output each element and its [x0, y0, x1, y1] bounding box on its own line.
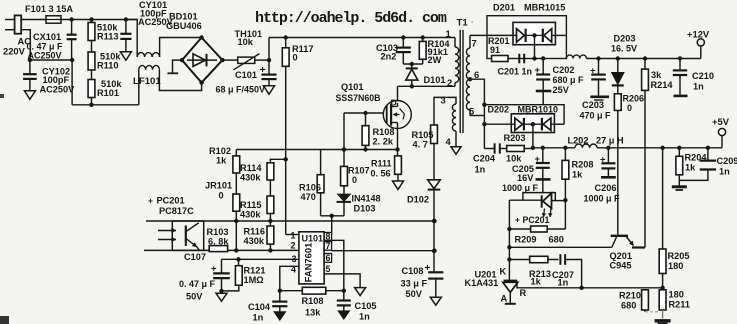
resistor R210 680 — [642, 290, 649, 310]
svg-text:0: 0 — [219, 191, 224, 201]
svg-text:33 μ F: 33 μ F — [401, 279, 428, 289]
ground R111 — [393, 181, 404, 190]
svg-text:2. 2k: 2. 2k — [373, 137, 394, 147]
svg-text:C101: C101 — [235, 70, 257, 80]
optocoupler PC201 LED side — [523, 193, 555, 201]
capacitor CY102 — [29, 60, 31, 74]
node JR101-feedback junction — [234, 248, 238, 252]
node chain bottom junction — [89, 103, 93, 107]
resistor R108 2.2k gate — [365, 113, 367, 126]
diode D103 1N4148 — [338, 194, 350, 201]
capacitor C107 0.47uF 50V — [221, 259, 223, 273]
svg-text:CX101: CX101 — [33, 32, 61, 42]
svg-text:5: 5 — [326, 264, 331, 274]
capacitor C201 1n — [518, 54, 520, 64]
svg-text:430k: 430k — [240, 210, 261, 220]
svg-text:68 μ F/450V: 68 μ F/450V — [216, 85, 266, 95]
svg-text:470: 470 — [301, 192, 316, 202]
node D201 output junction — [532, 56, 536, 60]
terminal +5V — [721, 136, 723, 148]
wire R101 to bottom rail — [91, 98, 93, 105]
svg-text:0. 56: 0. 56 — [371, 169, 391, 179]
transformer T1 primary winding pins 1-2 — [454, 38, 456, 48]
resistor R206 0 — [614, 94, 621, 111]
capacitor C204 1n — [484, 148, 494, 150]
svg-text:R102: R102 — [209, 146, 231, 156]
wire R210 bottom link — [644, 310, 646, 312]
svg-text:R: R — [520, 288, 527, 298]
ground pin 4 — [451, 147, 461, 155]
wire pin5 to ground — [324, 274, 360, 288]
wire R211 to ground — [662, 310, 664, 319]
node startup chain branch — [284, 157, 288, 161]
pin 4 lead — [280, 266, 299, 290]
ground pin5 open triangle — [355, 288, 366, 296]
svg-text:7: 7 — [472, 38, 477, 49]
node C101 junction — [267, 58, 271, 62]
svg-text:R103: R103 — [207, 227, 229, 237]
resistor R110 510k — [88, 52, 95, 70]
svg-text:1k: 1k — [216, 156, 227, 166]
node R113 chain top junction — [89, 17, 93, 21]
node D203 tap — [616, 56, 620, 60]
svg-text:1: 1 — [446, 28, 451, 39]
resistor R108 13k timing — [302, 287, 326, 294]
jumper JR101 0 — [235, 173, 237, 194]
capacitor C209 1n — [707, 148, 709, 160]
svg-text:R114: R114 — [240, 163, 262, 173]
capacitor C203 470uF — [598, 59, 600, 75]
resistor R213 1k — [509, 259, 529, 261]
node R204 tap — [677, 146, 681, 150]
node base wire junction — [507, 245, 511, 249]
svg-text:8: 8 — [326, 231, 331, 241]
node C202 tap — [541, 56, 545, 60]
svg-text:1n: 1n — [359, 312, 370, 322]
svg-text:Q201: Q201 — [610, 251, 632, 261]
capacitor C104 1n — [279, 291, 281, 301]
svg-text:3: 3 — [292, 254, 297, 264]
svg-text:C209: C209 — [717, 156, 737, 166]
svg-text:BD101: BD101 — [169, 12, 198, 22]
wire lower rail down to bottom rail — [71, 60, 73, 105]
resistor R111 0.56 — [397, 150, 399, 156]
svg-text:R208: R208 — [572, 160, 594, 170]
svg-text:+: + — [515, 215, 520, 225]
capacitor C103 2n2 — [401, 35, 405, 39]
capacitor C207 1n — [548, 259, 559, 261]
wire pin7 to D201 — [470, 34, 513, 36]
wire lower AC rail — [30, 59, 72, 61]
svg-text:13k: 13k — [305, 308, 321, 318]
svg-text:680 μ F: 680 μ F — [553, 75, 585, 85]
node R107 column junction — [342, 147, 346, 151]
svg-text:R113: R113 — [97, 32, 118, 42]
node D202 output junction — [531, 146, 535, 150]
wire pin 6 to D202 — [470, 79, 484, 105]
svg-text:50V: 50V — [186, 292, 203, 302]
svg-text:R209: R209 — [515, 235, 537, 245]
resistor R103 6.8k — [209, 246, 227, 252]
svg-text:0: 0 — [627, 103, 632, 113]
svg-text:430k: 430k — [240, 173, 261, 183]
svg-text:0. 47 μ F: 0. 47 μ F — [179, 279, 216, 289]
capacitor CY101 — [125, 20, 127, 34]
inductor LF101 common-mode choke upper winding — [126, 20, 137, 58]
resistor R115 430k — [267, 196, 274, 214]
node C107-R121 ground junction — [219, 289, 223, 293]
thermistor TH101 10k — [222, 59, 237, 61]
svg-text:R111: R111 — [371, 159, 392, 169]
wire K node drop — [508, 247, 510, 280]
node CX101 top junction — [69, 17, 73, 21]
resistor R208 1k — [564, 148, 566, 161]
wire R110-R101 — [91, 70, 93, 80]
transistor Q201 C945 — [611, 235, 628, 237]
node R205 tap — [660, 146, 664, 150]
node R209 left junction — [507, 227, 511, 231]
node D201 common cathode — [532, 33, 536, 37]
node C205 tap — [541, 146, 545, 150]
node rail to VCC node — [432, 219, 436, 223]
svg-text:R116: R116 — [244, 227, 265, 237]
pin 8 box — [324, 233, 332, 241]
svg-text:R214: R214 — [651, 80, 674, 90]
svg-text:180: 180 — [668, 261, 683, 271]
resistor R101 510k — [88, 80, 95, 98]
capacitor C101 68uF/450V — [268, 60, 270, 74]
resistor R107 0 — [343, 150, 345, 167]
svg-text:50V: 50V — [406, 289, 423, 299]
wire C204 branch from anode column — [483, 124, 485, 148]
wire opto collector rail — [146, 220, 435, 222]
terminal +12V — [700, 46, 702, 59]
svg-text:R105: R105 — [412, 130, 434, 140]
svg-text:0: 0 — [352, 175, 357, 185]
svg-text:T1: T1 — [457, 18, 469, 29]
wire up to primary HV rail — [268, 38, 270, 61]
node C206 tap — [606, 146, 610, 150]
svg-text:SSS7N60B: SSS7N60B — [336, 93, 381, 103]
svg-text:L202: L202 — [568, 136, 589, 146]
svg-text:1k: 1k — [685, 163, 696, 173]
wire branch to R114 — [270, 159, 285, 163]
connector AC input plug — [15, 15, 22, 33]
svg-text:0: 0 — [293, 53, 298, 63]
svg-text:+5V: +5V — [712, 116, 730, 127]
capacitor C205 1000uF 16V — [542, 148, 544, 163]
resistor R201 91 — [492, 56, 508, 62]
svg-text:C202: C202 — [553, 65, 575, 75]
svg-text:16. 5V: 16. 5V — [611, 44, 637, 54]
svg-text:R203: R203 — [504, 133, 526, 143]
svg-text:3k: 3k — [651, 70, 662, 80]
node pin6 net corner — [482, 103, 486, 107]
svg-text:1n: 1n — [719, 167, 730, 177]
node pin7-VCC junction — [432, 249, 436, 253]
svg-text:4: 4 — [446, 136, 452, 147]
svg-text:1n: 1n — [693, 82, 704, 92]
svg-text:R107: R107 — [348, 166, 370, 176]
svg-text:http://oahelp. 5d6d. com: http://oahelp. 5d6d. com — [255, 10, 447, 27]
svg-text:R108: R108 — [373, 127, 395, 137]
resistor R117 0 — [284, 35, 288, 39]
wire zener column to Q201 collector — [617, 110, 619, 234]
resistor R114 430k — [267, 163, 274, 180]
scan edge mark — [0, 94, 4, 98]
diode D102 — [428, 180, 441, 189]
svg-text:C203: C203 — [582, 100, 604, 110]
svg-text:R101: R101 — [97, 88, 119, 98]
resistor R116 430k — [267, 226, 274, 244]
svg-text:680: 680 — [549, 235, 564, 245]
svg-text:+: + — [148, 196, 153, 206]
svg-text:C210: C210 — [692, 71, 714, 81]
ground R204 C209 — [672, 185, 687, 188]
svg-text:LF101: LF101 — [133, 76, 161, 87]
wire AC neutral to lower rail — [21, 30, 30, 60]
transformer T1 core — [459, 30, 461, 133]
optocoupler PC201 PC817C transistor side — [172, 221, 203, 250]
svg-text:100pF: 100pF — [43, 75, 70, 85]
svg-text:C201 1n: C201 1n — [498, 67, 533, 77]
svg-text:PC817C: PC817C — [159, 206, 194, 216]
svg-text:680: 680 — [621, 301, 636, 311]
resistor R102 1k — [235, 150, 237, 156]
capacitor C210 1n — [679, 59, 681, 70]
node pin4-C104 junction — [278, 289, 282, 293]
svg-text:A: A — [501, 294, 508, 304]
wire drain to transformer pin2 — [398, 85, 456, 87]
wire snubber bottom — [403, 63, 422, 65]
node R116-feedback junction — [268, 248, 272, 252]
node rail-JR101 junction — [234, 219, 238, 223]
svg-text:2: 2 — [447, 77, 452, 88]
node rail-R115-R116 junction — [268, 219, 272, 223]
diode D101 — [411, 64, 413, 68]
wire primary HV top rail — [269, 37, 455, 39]
svg-text:C105: C105 — [355, 301, 377, 311]
pin 1 lead — [286, 234, 299, 236]
capacitor C206 1000uF — [607, 148, 609, 163]
svg-text:6: 6 — [326, 253, 331, 263]
svg-text:JR101: JR101 — [205, 181, 232, 191]
LED diode PC201 — [541, 195, 543, 207]
wire D103-R106 bottom link — [321, 215, 344, 217]
wire LED node risers — [564, 200, 566, 229]
wire IC feedback rail pin2 — [144, 249, 209, 251]
svg-text:U101: U101 — [302, 234, 324, 244]
wire primary bottom rail to LF101 — [72, 104, 139, 106]
node BD101 bottom vertex — [199, 80, 203, 84]
svg-text:2W: 2W — [428, 55, 442, 65]
node pin8 branch — [330, 214, 334, 218]
node R208 tap — [563, 146, 567, 150]
svg-text:10k: 10k — [506, 154, 522, 164]
svg-text:D101: D101 — [424, 75, 446, 85]
transformer T1 secondary winding pin 6-5 — [466, 79, 470, 110]
capacitor CX101 — [71, 20, 73, 35]
svg-text:R106: R106 — [299, 183, 321, 193]
ground C107 — [221, 291, 223, 293]
svg-text:C107: C107 — [184, 252, 206, 262]
wire pin8 riser — [331, 216, 333, 233]
resistor R121 1M — [236, 257, 240, 261]
svg-text:MBR1015: MBR1015 — [524, 3, 565, 13]
node pin 6 — [468, 77, 472, 81]
wire +5V rail — [533, 147, 575, 149]
node BD101 right vertex — [220, 58, 224, 62]
wire source lead — [397, 128, 399, 149]
svg-text:1n: 1n — [475, 165, 486, 175]
svg-text:1: 1 — [291, 231, 296, 241]
svg-text:180: 180 — [669, 290, 684, 300]
svg-text:91: 91 — [490, 45, 500, 55]
wire LED row — [509, 199, 541, 201]
pin 7 box — [324, 242, 332, 251]
wire primary source rail — [236, 149, 397, 151]
wire U201 ref lead — [517, 281, 663, 288]
svg-text:6: 6 — [474, 69, 479, 80]
svg-text:4: 4 — [291, 265, 296, 275]
svg-text:FAN7601: FAN7601 — [303, 243, 314, 283]
resistor R209 680 — [509, 228, 530, 230]
wire pin7 VCC line — [332, 250, 435, 252]
wire top AC rail — [61, 19, 137, 21]
wire D201 outer loop — [487, 16, 566, 59]
light arrows into PC201 — [158, 230, 176, 232]
svg-text:4. 7: 4. 7 — [413, 140, 428, 150]
wire AC line input leads — [5, 19, 15, 21]
svg-text:6. 8k: 6. 8k — [208, 237, 229, 247]
node drain wire junction — [410, 84, 414, 88]
svg-text:R211: R211 — [669, 300, 690, 310]
svg-text:3: 3 — [441, 95, 446, 106]
node R213 junction — [507, 257, 511, 261]
svg-text:1000 μ F: 1000 μ F — [502, 183, 539, 193]
svg-text:R205: R205 — [668, 251, 690, 261]
wire pin4 to R108 — [280, 290, 303, 292]
diode package D201 — [513, 22, 555, 44]
wire +12V rail — [587, 58, 701, 60]
capacitor C108 33uF 50V — [433, 251, 435, 272]
svg-text:F101 3 15A: F101 3 15A — [25, 4, 73, 14]
svg-text:1000 μ F: 1000 μ F — [584, 194, 621, 204]
svg-text:K1A431: K1A431 — [465, 278, 499, 288]
svg-text:2n2: 2n2 — [381, 52, 397, 62]
svg-text:AC250V: AC250V — [40, 85, 76, 95]
node C203 tap — [596, 56, 600, 60]
resistor R204 1k — [678, 148, 680, 157]
svg-text:10k: 10k — [238, 37, 254, 47]
diode inside BD101 — [187, 59, 217, 61]
svg-text:Q101: Q101 — [341, 82, 363, 92]
wire gate lead — [344, 112, 383, 114]
svg-text:2: 2 — [291, 241, 296, 251]
svg-text:1n: 1n — [253, 313, 264, 323]
inductor LF101 lower winding — [138, 70, 140, 105]
wire R117 long column down to U101 pin1 — [285, 66, 287, 234]
svg-text:C206: C206 — [595, 183, 617, 193]
svg-text:1n: 1n — [558, 277, 569, 287]
node ref-R211 junction — [660, 286, 664, 290]
wire D202 cathode to 5V rail — [532, 124, 534, 148]
svg-text:R121: R121 — [244, 266, 266, 276]
diode package D202 — [511, 114, 554, 133]
svg-text:R115: R115 — [240, 200, 261, 210]
resistor R113 510k — [91, 20, 93, 23]
svg-text:AC250V: AC250V — [28, 50, 62, 60]
svg-text:430k: 430k — [244, 236, 265, 246]
node CY101 junction — [124, 17, 128, 21]
node R108-C105 junction — [342, 289, 346, 293]
inductor L201 — [566, 55, 586, 59]
node BD101 left vertex — [180, 58, 184, 62]
wire R214 column down to emitter node — [644, 90, 646, 247]
resistor R106 470 — [320, 150, 322, 175]
resistor R105 4.7 — [431, 125, 438, 144]
bridge rectifier BD101 GBU406 diamond — [182, 38, 222, 83]
svg-text:PC201: PC201 — [157, 196, 185, 206]
wire R113-R110 — [91, 41, 93, 53]
resistor R205 180 — [662, 148, 664, 249]
svg-text:1k: 1k — [531, 277, 542, 287]
svg-text:D201: D201 — [493, 3, 515, 13]
wire D202 anode row — [484, 123, 511, 125]
scan corner mark — [0, 316, 9, 324]
wire gate column down — [343, 113, 345, 150]
wire BD101 AC stub with terminal bar — [173, 60, 183, 72]
node C209 tap — [706, 146, 710, 150]
svg-text:C108: C108 — [402, 266, 424, 276]
node R214 tap — [643, 56, 647, 60]
svg-text:D102: D102 — [407, 195, 429, 205]
svg-text:D202: D202 — [488, 105, 510, 115]
svg-text:R110: R110 — [97, 61, 118, 71]
LED emission arrows — [544, 209, 545, 218]
svg-text:R206: R206 — [623, 94, 645, 104]
pin 6 box — [324, 254, 332, 263]
svg-text:D203: D203 — [614, 34, 636, 44]
node gate-R108 junction — [363, 111, 367, 115]
svg-text:16V: 16V — [517, 173, 534, 183]
wire Q201 base wire — [509, 246, 611, 248]
fuse F101 — [21, 19, 46, 21]
svg-text:GBU406: GBU406 — [166, 21, 202, 31]
transformer T1 secondary winding pin 7-6 — [469, 35, 471, 48]
IC U101 FAN7601 — [299, 232, 324, 284]
svg-text:K: K — [500, 267, 507, 277]
resistor R211 180 — [662, 288, 664, 290]
node R108 bottom junction — [363, 147, 367, 151]
svg-text:PC201: PC201 — [523, 215, 550, 225]
svg-text:R108: R108 — [302, 296, 324, 306]
node source-R111 junction — [395, 147, 399, 151]
svg-text:7: 7 — [326, 241, 331, 251]
resistor R214 3k — [644, 59, 646, 70]
svg-text:+12V: +12V — [687, 29, 710, 40]
ground secondary bar — [655, 319, 671, 322]
node BD101 top vertex — [199, 35, 203, 39]
node C210 tap — [678, 56, 682, 60]
capacitor C202 680uF 25V — [542, 59, 544, 74]
node D202 common cathode — [531, 122, 535, 126]
resistor R104 91k1 2W — [421, 35, 425, 39]
svg-text:C204: C204 — [473, 154, 496, 164]
svg-text:R210: R210 — [619, 291, 641, 301]
svg-text:C104: C104 — [248, 302, 271, 312]
node D202 anode tee — [482, 122, 486, 126]
